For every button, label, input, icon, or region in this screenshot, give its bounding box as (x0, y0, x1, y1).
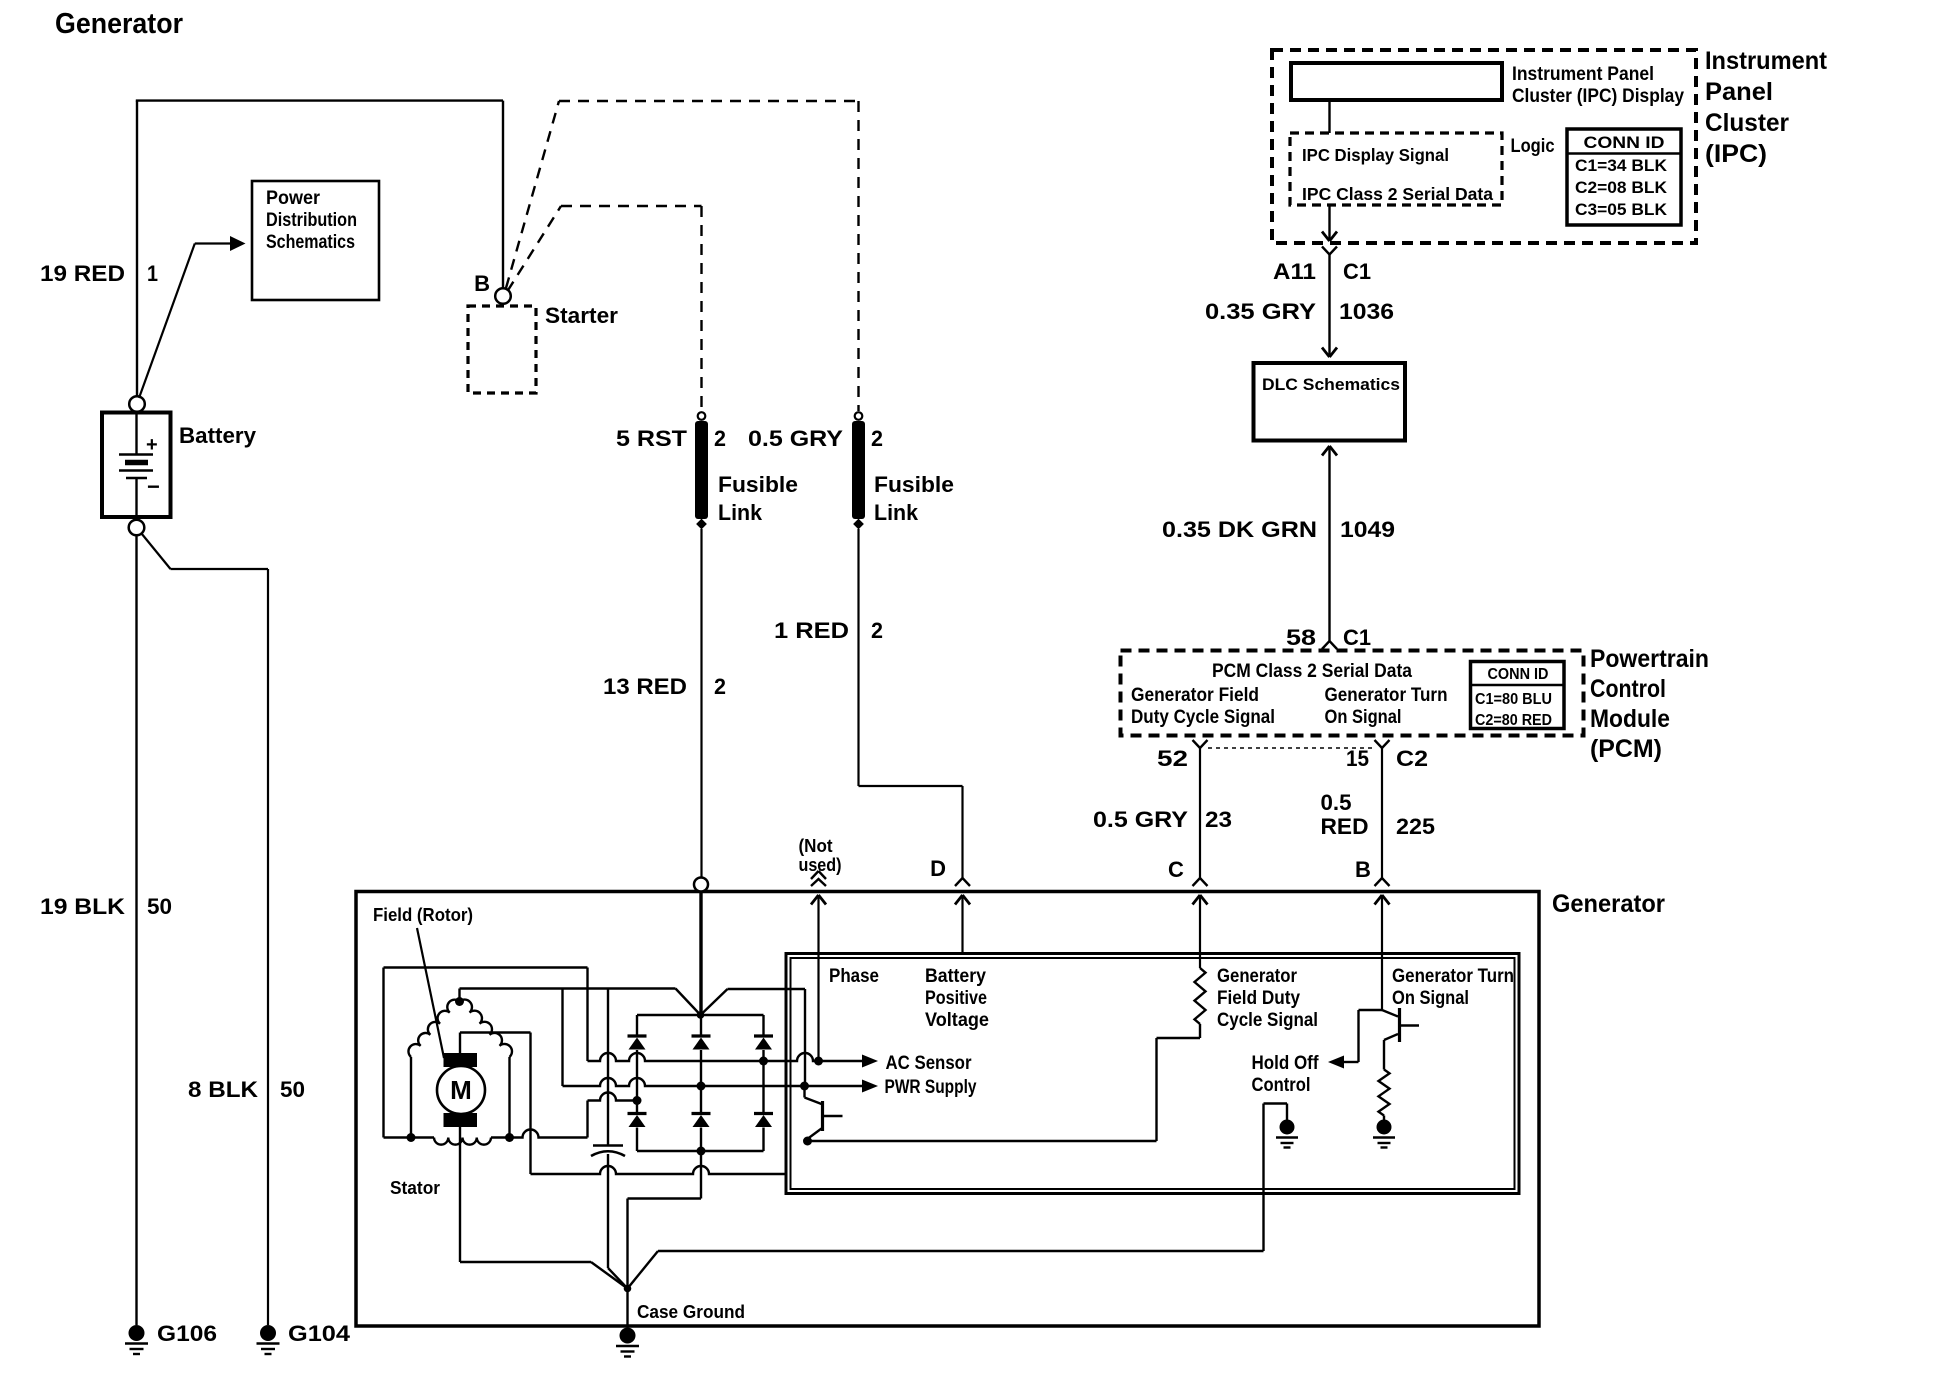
svg-text:C1=34 BLK: C1=34 BLK (1575, 156, 1668, 175)
svg-text:0.35 GRY: 0.35 GRY (1205, 299, 1316, 324)
svg-text:1036: 1036 (1339, 299, 1394, 324)
svg-text:Generator: Generator (55, 8, 183, 40)
svg-text:Module: Module (1590, 705, 1670, 733)
svg-text:C1: C1 (1343, 259, 1371, 284)
svg-text:Voltage: Voltage (925, 1010, 989, 1031)
svg-text:C2=80 RED: C2=80 RED (1475, 712, 1552, 729)
svg-text:(Not: (Not (799, 836, 833, 856)
svg-text:19 RED: 19 RED (40, 261, 125, 286)
svg-text:2: 2 (871, 426, 883, 451)
svg-text:C2=08 BLK: C2=08 BLK (1575, 178, 1668, 197)
svg-text:58: 58 (1286, 625, 1316, 650)
svg-text:23: 23 (1205, 807, 1232, 832)
svg-text:B: B (1355, 857, 1371, 882)
svg-text:Panel: Panel (1705, 78, 1773, 106)
svg-text:CONN ID: CONN ID (1584, 133, 1665, 152)
svg-text:A11: A11 (1273, 259, 1316, 284)
svg-text:13 RED: 13 RED (603, 674, 687, 699)
svg-text:On Signal: On Signal (1392, 988, 1469, 1009)
svg-text:G104: G104 (288, 1321, 351, 1346)
svg-text:C2: C2 (1396, 746, 1428, 771)
svg-text:Control: Control (1252, 1075, 1311, 1096)
svg-text:PWR Supply: PWR Supply (885, 1077, 977, 1098)
svg-text:Duty Cycle Signal: Duty Cycle Signal (1131, 707, 1275, 728)
svg-text:Powertrain: Powertrain (1590, 645, 1709, 673)
svg-text:0.35 DK GRN: 0.35 DK GRN (1162, 517, 1317, 542)
svg-text:AC Sensor: AC Sensor (886, 1053, 973, 1074)
svg-text:C: C (1168, 857, 1184, 882)
svg-text:Cluster: Cluster (1705, 109, 1789, 137)
svg-text:Distribution: Distribution (266, 210, 357, 231)
svg-text:19 BLK: 19 BLK (40, 894, 125, 919)
svg-text:Field Duty: Field Duty (1217, 988, 1300, 1009)
svg-text:Generator Turn: Generator Turn (1392, 966, 1514, 987)
svg-text:0.5: 0.5 (1321, 790, 1352, 815)
svg-text:IPC Display Signal: IPC Display Signal (1302, 145, 1449, 165)
svg-text:2: 2 (871, 618, 883, 643)
svg-text:0.5 GRY: 0.5 GRY (748, 426, 843, 451)
svg-text:Instrument: Instrument (1705, 47, 1828, 75)
svg-text:Generator: Generator (1552, 890, 1665, 918)
svg-text:On Signal: On Signal (1325, 707, 1402, 728)
svg-text:Phase: Phase (829, 966, 879, 987)
svg-text:RED: RED (1321, 814, 1369, 839)
svg-text:Cluster (IPC) Display: Cluster (IPC) Display (1512, 86, 1684, 107)
svg-text:C3=05 BLK: C3=05 BLK (1575, 200, 1668, 219)
svg-text:2: 2 (714, 426, 726, 451)
svg-text:Stator: Stator (390, 1177, 440, 1198)
svg-text:1049: 1049 (1340, 517, 1395, 542)
svg-text:225: 225 (1396, 814, 1435, 839)
svg-text:2: 2 (714, 674, 726, 699)
svg-text:CONN ID: CONN ID (1488, 666, 1549, 683)
svg-text:Link: Link (874, 500, 919, 525)
svg-text:Generator Turn: Generator Turn (1325, 685, 1448, 706)
svg-text:D: D (930, 856, 946, 881)
svg-text:8 BLK: 8 BLK (188, 1077, 258, 1102)
svg-text:M: M (450, 1075, 472, 1105)
svg-text:(IPC): (IPC) (1705, 140, 1767, 168)
svg-text:Link: Link (718, 500, 763, 525)
svg-text:Power: Power (266, 188, 321, 209)
svg-text:1: 1 (147, 261, 158, 286)
svg-text:52: 52 (1157, 746, 1188, 771)
svg-text:50: 50 (280, 1077, 305, 1102)
svg-text:Hold Off: Hold Off (1252, 1053, 1320, 1074)
svg-text:Battery: Battery (925, 966, 986, 987)
svg-text:C1=80 BLU: C1=80 BLU (1475, 691, 1552, 708)
svg-text:C1: C1 (1343, 625, 1371, 650)
svg-text:Fusible: Fusible (718, 472, 798, 497)
svg-text:50: 50 (147, 894, 172, 919)
svg-text:Control: Control (1590, 675, 1666, 703)
svg-text:Instrument Panel: Instrument Panel (1512, 64, 1654, 85)
svg-text:PCM Class 2 Serial Data: PCM Class 2 Serial Data (1212, 661, 1412, 682)
svg-text:Fusible: Fusible (874, 472, 954, 497)
svg-text:−: − (147, 474, 160, 499)
svg-text:Positive: Positive (925, 988, 987, 1009)
svg-text:Field (Rotor): Field (Rotor) (373, 904, 473, 925)
svg-text:+: + (146, 434, 158, 456)
svg-text:Schematics: Schematics (266, 232, 355, 253)
svg-text:15: 15 (1346, 746, 1369, 771)
svg-text:Starter: Starter (545, 303, 618, 328)
svg-text:Case Ground: Case Ground (637, 1301, 745, 1322)
svg-text:5 RST: 5 RST (616, 426, 688, 451)
svg-text:Battery: Battery (179, 423, 257, 448)
svg-text:Logic: Logic (1511, 136, 1555, 157)
svg-text:(PCM): (PCM) (1590, 735, 1662, 763)
svg-text:Generator: Generator (1217, 966, 1298, 987)
svg-text:0.5 GRY: 0.5 GRY (1093, 807, 1188, 832)
svg-text:1 RED: 1 RED (774, 618, 849, 643)
svg-text:B: B (474, 271, 490, 296)
svg-text:IPC Class 2 Serial Data: IPC Class 2 Serial Data (1302, 184, 1493, 204)
svg-text:Generator Field: Generator Field (1131, 685, 1259, 706)
svg-text:G106: G106 (157, 1321, 217, 1346)
svg-text:Cycle Signal: Cycle Signal (1217, 1010, 1318, 1031)
svg-text:DLC Schematics: DLC Schematics (1262, 375, 1400, 394)
